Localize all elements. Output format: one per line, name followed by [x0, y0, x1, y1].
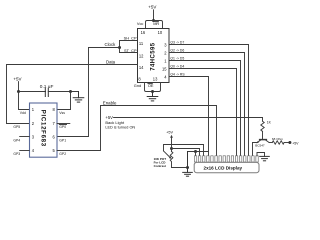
wire +5V to Vdd pin 1 [19, 92, 30, 110]
svg-text:13: 13 [153, 76, 158, 81]
wire Clock from GP1 [89, 47, 120, 49]
junction dot pot +5V [170, 147, 173, 150]
svg-text:Gnd: Gnd [134, 83, 141, 88]
svg-text:Contrast: Contrast [154, 164, 166, 168]
power +5V right arrow [288, 141, 299, 145]
wire LCD pin16 to ground [257, 153, 265, 157]
svg-text:BC547: BC547 [255, 144, 265, 148]
wire Q4 to LCD RS [169, 77, 209, 156]
wire Vdd rail right [48, 91, 78, 93]
ground symbol at LCD pin16 [260, 156, 270, 160]
pin label MR (active low) [153, 21, 159, 26]
svg-text:15: 15 [162, 67, 167, 72]
capacitor C1 0.1uF [45, 88, 48, 96]
svg-text:16: 16 [141, 30, 146, 35]
wire U1 ground bracket [145, 83, 161, 92]
svg-text:1K: 1K [267, 120, 272, 124]
junction dot pot bottom [186, 166, 189, 169]
potentiometer R3 body [170, 152, 173, 168]
svg-text:GP4: GP4 [13, 138, 20, 142]
svg-text:GP3: GP3 [13, 152, 20, 156]
svg-text:Clock: Clock [105, 42, 117, 47]
wire emitter to LCD pin 15 [253, 143, 258, 156]
wire Enable GP2 to LCD pin6 [57, 106, 217, 156]
svg-text:11: 11 [139, 41, 144, 46]
power +5V supply for pot [166, 131, 173, 152]
svg-text:68 Ohm: 68 Ohm [272, 137, 283, 141]
wire Vdd rail left [19, 91, 46, 93]
svg-text:Data: Data [106, 60, 116, 65]
wire ground bus to LCD pin1 and pin4 [188, 152, 209, 169]
wire Q3 to LCD D7 [169, 45, 249, 156]
wire Vcc/MR bracket to U1 [146, 21, 163, 29]
svg-text:Vdd: Vdd [20, 111, 26, 115]
junction dot at U1 supply bracket [152, 19, 155, 22]
wire Vss pin 8 to ground rail [57, 92, 71, 110]
IC U2 PIC12F683 body [30, 103, 58, 157]
power +5V supply for U1 [148, 5, 156, 21]
part label 10K POT For LCD Contrast [154, 157, 167, 168]
transistor Q1 BC547 [256, 140, 269, 144]
svg-text:2x16 LCD Display: 2x16 LCD Display [204, 165, 243, 170]
svg-text:PIC12F683: PIC12F683 [39, 110, 46, 147]
wire 1K to base [262, 131, 264, 139]
junction clock node [118, 46, 121, 49]
svg-text:74HC595: 74HC595 [151, 42, 157, 70]
stub GP0 [57, 123, 70, 125]
wire drop to LCD pin 1 [195, 152, 197, 156]
wire Q1 to LCD D5 [169, 61, 241, 156]
junction dot Vss branch [69, 90, 72, 93]
svg-text:GP1: GP1 [59, 138, 66, 142]
wire Data pin 14 to GP5 [7, 65, 138, 124]
stub GP4 [20, 136, 30, 138]
svg-text:Enable: Enable [103, 101, 117, 106]
wire SH_CP pin 11 [120, 40, 138, 42]
ground symbol at C1 [73, 92, 84, 103]
LCD module pin header [194, 156, 258, 162]
svg-text:12: 12 [139, 53, 144, 58]
svg-text:Vss: Vss [59, 111, 65, 115]
wire Q2 to LCD D6 [169, 53, 245, 156]
power +5V supply for U2 PIC [13, 76, 21, 91]
svg-text:+5V: +5V [166, 131, 173, 135]
wire 68 Ohm to +5V [284, 142, 289, 144]
wire pot wiper to LCD pin 3 [164, 145, 204, 156]
junction dot Vdd rail [17, 90, 20, 93]
wire ST_CP pin 12 [120, 52, 138, 54]
IC U1 74HC595 body [138, 29, 170, 83]
svg-text:+5V: +5V [148, 5, 156, 10]
svg-text:+5V: +5V [292, 141, 299, 145]
ground symbol below pot [183, 152, 193, 177]
svg-text:GP0: GP0 [59, 125, 66, 129]
wire collector to 68 Ohm [269, 142, 272, 144]
ground symbol below U1 [147, 92, 158, 101]
wire Clock vertical to GP1 [57, 48, 89, 137]
svg-text:SH_CP: SH_CP [124, 36, 137, 41]
junction dot U1 ground [151, 90, 154, 93]
potentiometer R3 wiper arrow [164, 151, 172, 159]
pin label GP0 (active low bar) [59, 125, 66, 129]
svg-text:10: 10 [158, 30, 163, 35]
svg-text:GP5: GP5 [13, 125, 20, 129]
wire Q0 to LCD D4 [169, 69, 237, 156]
svg-text:Back Light: Back Light [105, 120, 125, 125]
resistor R2 68 Ohm [272, 141, 284, 144]
LCD module body [194, 162, 259, 172]
wire +5V to LCD pin 2 [172, 149, 200, 156]
svg-text:GP2: GP2 [59, 152, 66, 156]
pin label OE (active low) [148, 83, 154, 88]
svg-text:Vcc: Vcc [137, 21, 144, 26]
wire pot bottom to ground [172, 167, 188, 169]
stub GP3 [20, 150, 30, 152]
svg-text:LED is turned ON: LED is turned ON [105, 126, 135, 130]
svg-text:+5V: +5V [13, 76, 21, 81]
resistor R1 1K [261, 121, 264, 131]
svg-text:14: 14 [139, 65, 144, 70]
junction dot LCD pin1 ground [194, 150, 197, 153]
svg-text:0.1 uF: 0.1 uF [40, 84, 54, 90]
wire clock branch vertical [119, 41, 121, 53]
wire +5V rail to 1K [114, 118, 263, 122]
